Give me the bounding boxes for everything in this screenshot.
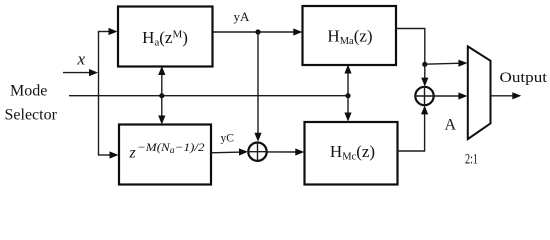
arrow output <box>512 92 521 99</box>
wire up to HMa bottom <box>347 70 349 96</box>
adder A2 plus <box>415 95 435 97</box>
arrow into Ha left <box>109 28 118 35</box>
arrow into delay left <box>110 151 119 158</box>
wire x input horizontal <box>63 72 91 74</box>
junction dot mux top input <box>422 62 427 67</box>
svg-text:z: z <box>129 145 137 162</box>
block HMa(z) <box>303 6 397 65</box>
svg-text:x: x <box>77 50 86 69</box>
arrow down into HMc top <box>344 113 351 122</box>
arrow into mux input 2 <box>458 92 467 99</box>
mux 2:1 trapezoid <box>468 46 491 139</box>
adder A2 circle <box>415 87 433 105</box>
junction dot yA <box>255 29 260 34</box>
svg-text:Selector: Selector <box>5 106 58 123</box>
wire HMa output elbow down <box>396 29 425 64</box>
arrow into node of x branch <box>89 69 98 76</box>
wire mode selector horizontal <box>69 95 348 97</box>
wire yC from delay to adder1 <box>211 151 242 154</box>
arrow up into Ha bottom <box>158 66 165 75</box>
wire mux output <box>491 95 515 97</box>
adder A1 circle <box>248 143 266 161</box>
arrow into adder1 left <box>239 148 248 155</box>
block HMc(z) <box>305 122 398 185</box>
arrow down into adder2 top <box>421 78 428 87</box>
junction dot left <box>159 93 164 98</box>
arrow into mux input 1 <box>458 60 467 67</box>
svg-text:yC: yC <box>221 133 235 145</box>
svg-text:Output: Output <box>500 70 548 86</box>
junction dot right <box>345 93 350 98</box>
wire to mux input 1 <box>425 62 462 65</box>
wire adder1 to HMc <box>267 151 298 153</box>
arrow up into HMa bottom <box>344 65 351 74</box>
wire down to adder2 top <box>424 64 426 81</box>
svg-text:2:1: 2:1 <box>465 152 478 168</box>
svg-text:Mode: Mode <box>10 83 47 100</box>
arrow into HMc left <box>295 148 304 155</box>
wire yA down to adder1 <box>257 32 259 136</box>
adder A1 plus <box>248 151 268 153</box>
arrow down into adder1 top <box>254 133 261 142</box>
arrow into HMa left <box>293 28 302 35</box>
wire yA from Ha to HMa <box>213 31 297 33</box>
wire to Ha input <box>98 31 111 33</box>
svg-text:yA: yA <box>234 9 251 24</box>
wire adder2 to mux input 2 <box>434 95 461 97</box>
arrow down into delay top <box>158 116 165 125</box>
wire HMc output elbow up <box>398 111 425 151</box>
arrow up into adder2 bottom <box>421 105 428 114</box>
block Ha(zM) <box>118 7 213 67</box>
wire to delay input <box>98 154 112 156</box>
wire down to HMc top <box>347 96 349 116</box>
wire mode up to Ha bottom <box>161 72 163 96</box>
node x branch vertical <box>98 32 100 156</box>
block delay z^-M(Na-1)/2 <box>119 125 211 185</box>
wire mode down to delay top <box>161 96 163 119</box>
svg-text:A: A <box>445 117 457 134</box>
